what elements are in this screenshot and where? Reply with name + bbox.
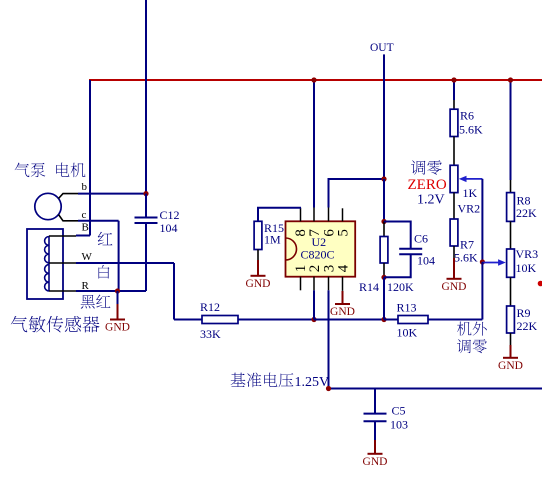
resistor R14 (383, 222, 385, 237)
svg-text:VR2: VR2 (458, 202, 481, 216)
ground GND below C5 (368, 440, 383, 454)
svg-text:C12: C12 (160, 208, 180, 222)
ground GND at pin4 (342, 290, 344, 292)
wire pin2 node to R14 node (314, 319, 384, 321)
resistor R9 (507, 306, 515, 333)
capacitor C6 (384, 222, 411, 249)
op-amp U2 C820C body (286, 221, 356, 276)
node bus R6 junction dot (451, 77, 456, 82)
motor pin b lead (59, 194, 79, 199)
resistor R15 (258, 208, 301, 222)
label 基准电压 (231, 373, 246, 387)
node R junction dot (115, 288, 120, 293)
label 红 (98, 232, 113, 245)
U2 pin 5 stub (342, 208, 344, 221)
svg-text:R: R (82, 280, 90, 292)
wire into R13 (384, 319, 398, 321)
motor pin c lead (59, 215, 79, 221)
U2 pin 6 stub (328, 208, 330, 222)
node R14 C6 top junction dot (381, 219, 386, 224)
sensor heater coil (45, 237, 49, 292)
wire top vertical into C12 column (145, 0, 147, 194)
wire W rightward (76, 262, 174, 264)
ground GND below R9 (503, 345, 518, 358)
R9 bottom lead (510, 333, 512, 346)
wire R6 to VR2 (453, 137, 455, 166)
U2 pin 8 stub (300, 208, 302, 222)
node stub right edge (538, 281, 542, 287)
label 气泵 电机 (15, 163, 30, 178)
wire +V red bus (89, 79, 542, 81)
label 机外 (457, 322, 471, 336)
svg-text:104: 104 (160, 221, 178, 235)
svg-text:GND: GND (105, 322, 130, 334)
VR2 wiper arrow (465, 178, 482, 180)
ground GND at sensor R node (117, 291, 119, 304)
node bus R8 junction dot (508, 77, 513, 82)
svg-text:1.2V: 1.2V (417, 192, 445, 207)
U2 pin 2 stub (313, 277, 315, 291)
R7 bottom lead (453, 246, 455, 259)
svg-text:22K: 22K (516, 206, 537, 220)
svg-text:R12: R12 (200, 300, 220, 314)
U2 pin 7 stub (313, 208, 315, 222)
wire VR2 to R7 (453, 193, 455, 219)
svg-text:GND: GND (442, 281, 467, 293)
wire bus corner down to motor/sensor column (89, 80, 91, 236)
svg-text:4: 4 (336, 264, 352, 272)
U2 pin 1 stub (300, 277, 302, 291)
svg-text:5.6K: 5.6K (459, 123, 483, 137)
svg-text:1M: 1M (264, 232, 281, 246)
svg-text:33K: 33K (200, 327, 221, 341)
R15 bottom lead (257, 250, 259, 262)
label 调零 (411, 160, 425, 174)
svg-text:VR3: VR3 (516, 247, 539, 261)
node pin2 junction dot (311, 317, 316, 322)
resistor R13 (398, 316, 428, 324)
label 白 (98, 265, 109, 279)
wire R8 to VR3 (510, 221, 512, 249)
svg-text:120K: 120K (387, 280, 414, 294)
wire pin3 down to reference rail (328, 290, 330, 388)
capacitor C12 (145, 194, 147, 218)
gas sensor body (box) (27, 229, 63, 299)
wire motor c rightward (78, 220, 119, 222)
wire bus to R8 (510, 80, 512, 180)
svg-text:10K: 10K (516, 261, 537, 275)
svg-text:104: 104 (417, 254, 435, 268)
svg-text:R14: R14 (359, 280, 379, 294)
wire into R12 (174, 319, 202, 321)
svg-text:R7: R7 (460, 238, 474, 252)
wire wiper node down to R13 rail (481, 262, 483, 320)
svg-text:W: W (82, 251, 93, 263)
svg-text:R13: R13 (397, 301, 417, 315)
wire W corner down (173, 263, 175, 320)
wire reference 1.25V rail (329, 388, 542, 390)
svg-text:GND: GND (363, 456, 388, 468)
node pin3 rail junction dot (326, 386, 331, 391)
motor M1 air-pump (circle) (35, 193, 61, 219)
svg-text:C820C: C820C (301, 248, 335, 262)
wire pin2 down to rail (313, 290, 315, 319)
sensor pin B lead (49, 235, 76, 237)
label 调零 (second line) (457, 339, 471, 353)
svg-text:1K: 1K (463, 186, 478, 200)
wire pin7 up to bus (313, 80, 315, 208)
svg-text:GND: GND (246, 278, 271, 290)
ground GND below R7 (447, 258, 462, 279)
svg-text:GND: GND (330, 306, 355, 318)
resistor R12 (202, 316, 238, 324)
resistor R7 (450, 219, 458, 246)
svg-text:103: 103 (390, 418, 408, 432)
svg-text:5.6K: 5.6K (454, 251, 478, 265)
potentiometer VR2 (450, 165, 458, 192)
wire B to bus column (76, 235, 90, 237)
node wiper junction dot (480, 259, 485, 264)
svg-text:R6: R6 (460, 109, 474, 123)
node OUT pin6 junction dot (381, 176, 386, 181)
svg-text:1.25V: 1.25V (295, 375, 330, 390)
wire VR2 wiper down (481, 179, 483, 262)
svg-text:OUT: OUT (370, 42, 394, 54)
wire c corner down to R node (118, 221, 120, 291)
wire down to R14/C6 top node (383, 179, 385, 222)
sensor pin W lead (49, 262, 76, 264)
wire R to ground node (76, 290, 146, 292)
svg-text:c: c (82, 209, 87, 221)
svg-text:B: B (82, 222, 89, 234)
wire R14 bottom to rail (383, 277, 385, 319)
svg-text:10K: 10K (397, 326, 418, 340)
svg-text:C5: C5 (392, 404, 406, 418)
wire motor b to junction (78, 193, 146, 195)
svg-text:ZERO: ZERO (408, 177, 447, 193)
svg-text:C6: C6 (414, 232, 428, 246)
U2 pin 4 stub (342, 277, 344, 291)
svg-text:R9: R9 (517, 306, 531, 320)
node bus pin7 junction dot (311, 77, 316, 82)
wire OUT down to pin6 node (383, 54, 385, 179)
svg-text:22K: 22K (517, 319, 538, 333)
node b junction dot (143, 191, 148, 196)
wire pin6 up and right to OUT column (329, 179, 385, 208)
wire R12 to pin2 node (238, 319, 314, 321)
resistor R6 (450, 109, 458, 136)
svg-text:b: b (82, 181, 88, 193)
capacitor C5 (374, 389, 376, 414)
ground GND below R15 (251, 260, 266, 276)
wire R13 to trimmer column (428, 319, 482, 321)
svg-text:GND: GND (498, 360, 523, 372)
node R14 C6 bottom junction dot (381, 275, 386, 280)
sensor pin R lead (49, 290, 76, 292)
node R14 bottom rail junction dot (381, 317, 386, 322)
VR3 wiper arrow (482, 262, 499, 264)
resistor R8 (507, 193, 515, 222)
U2 pin 3 stub (328, 277, 330, 291)
wire bus to R6 (453, 80, 455, 100)
label 气敏传感器 (11, 316, 28, 332)
potentiometer VR3 (507, 249, 515, 277)
svg-text:5: 5 (336, 229, 352, 237)
wire VR3 to R9 (510, 277, 512, 306)
label 黑红 (81, 295, 95, 309)
